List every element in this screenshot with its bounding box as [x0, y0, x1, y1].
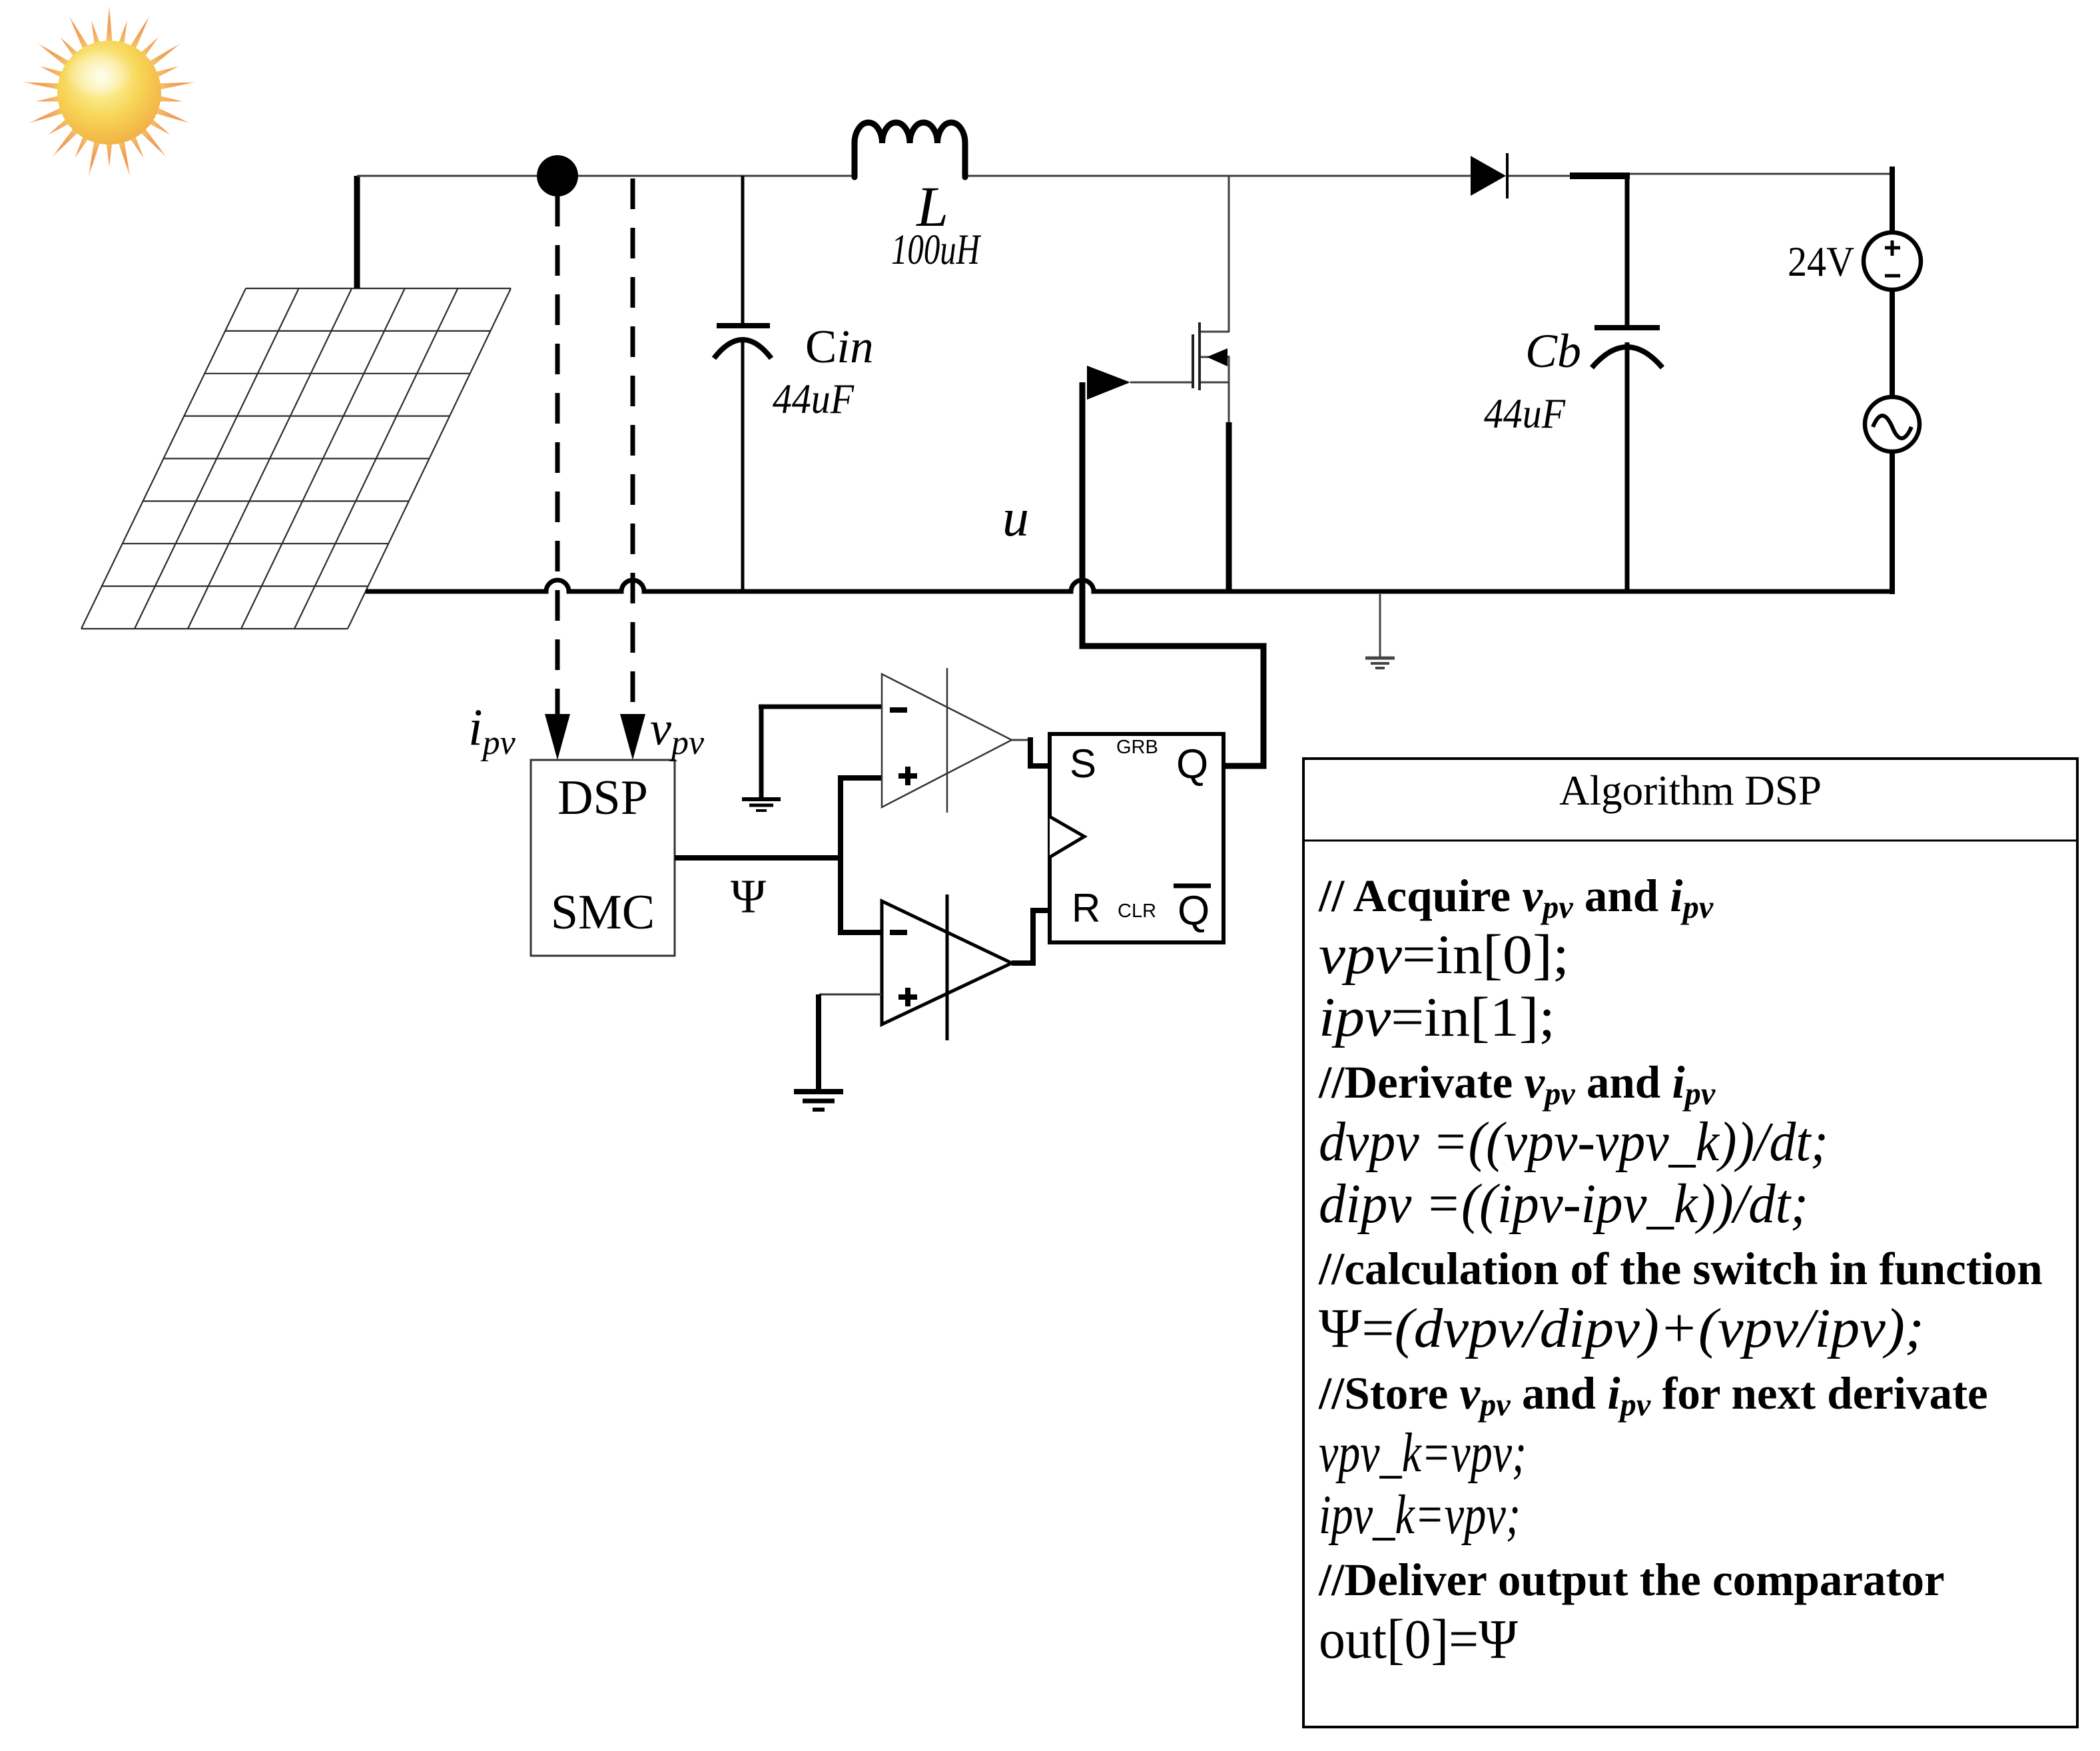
svg-text:Cb: Cb [1525, 324, 1581, 378]
svg-text:Q: Q [1176, 741, 1208, 787]
svg-text://Deliver output the comparato: //Deliver output the comparator [1318, 1555, 1945, 1605]
svg-text:ipv=in[1];: ipv=in[1]; [1319, 986, 1555, 1048]
svg-text:44uF: 44uF [1484, 390, 1566, 437]
svg-text:u: u [1002, 489, 1029, 547]
svg-text:Q: Q [1178, 888, 1210, 934]
svg-text:100uH: 100uH [891, 226, 981, 274]
svg-text:Algorithm DSP: Algorithm DSP [1559, 767, 1822, 814]
svg-text:CLR: CLR [1118, 900, 1156, 922]
svg-text:vpv_k=vpv;: vpv_k=vpv; [1319, 1422, 1527, 1484]
svg-text:dipv =((ipv-ipv_k))/dt;: dipv =((ipv-ipv_k))/dt; [1319, 1173, 1808, 1235]
svg-text:R: R [1072, 886, 1100, 930]
svg-text:ipv_k=vpv;: ipv_k=vpv; [1319, 1484, 1521, 1546]
svg-text://Store vpv and ipv for next d: //Store vpv and ipv for next derivate [1318, 1368, 1988, 1423]
svg-text:// Acquire vpv and ipv: // Acquire vpv and ipv [1318, 871, 1714, 925]
svg-text:S: S [1070, 741, 1096, 786]
svg-text:24V: 24V [1788, 238, 1854, 285]
svg-text://calculation of the switch in: //calculation of the switch in function [1318, 1243, 2043, 1294]
svg-text:DSP: DSP [557, 771, 648, 825]
svg-text:dvpv =((vpv-vpv_k))/dt;: dvpv =((vpv-vpv_k))/dt; [1319, 1111, 1828, 1173]
svg-text:vpv=in[0];: vpv=in[0]; [1319, 924, 1569, 986]
svg-text:Ψ: Ψ [731, 870, 766, 923]
svg-text:out[0]=Ψ: out[0]=Ψ [1319, 1608, 1518, 1670]
svg-text://Derivate vpv and ipv: //Derivate vpv and ipv [1318, 1057, 1716, 1112]
svg-text:Ψ=(dvpv/dipv)+(vpv/ipv);: Ψ=(dvpv/dipv)+(vpv/ipv); [1319, 1297, 1924, 1359]
svg-text:GRB: GRB [1116, 737, 1158, 758]
svg-text:44uF: 44uF [773, 375, 855, 422]
svg-text:Cin: Cin [805, 321, 874, 373]
svg-text:SMC: SMC [551, 885, 655, 940]
